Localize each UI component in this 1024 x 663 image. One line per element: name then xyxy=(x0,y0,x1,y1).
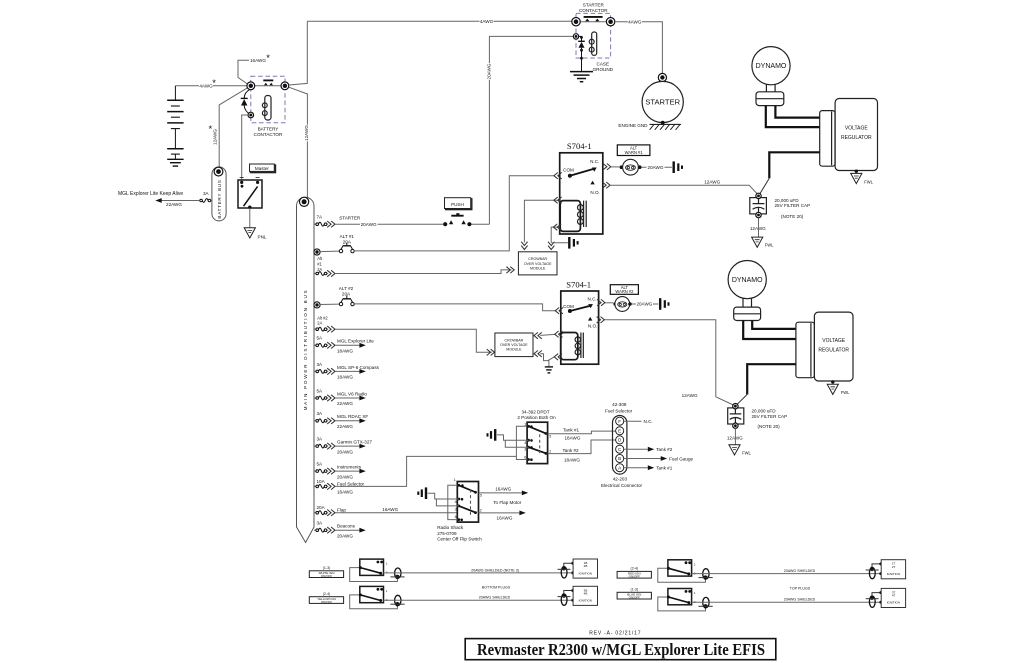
svg-text:PUSH: PUSH xyxy=(451,202,464,207)
battery contactor contact bar xyxy=(263,79,273,81)
dynamo 1 gland xyxy=(756,92,784,106)
DPDT linkage dashed xyxy=(539,434,541,453)
svg-text:2A: 2A xyxy=(317,267,322,272)
relay U2 N.O. contact xyxy=(588,317,592,321)
svg-text:18AWG: 18AWG xyxy=(337,375,353,380)
wire N.C. to lamp xyxy=(611,166,620,168)
push button label box xyxy=(446,199,472,210)
svg-text:Center Off Flip Switch: Center Off Flip Switch xyxy=(437,537,482,542)
svg-text:4: 4 xyxy=(455,500,457,504)
svg-text:BATTERY BUS: BATTERY BUS xyxy=(217,179,222,218)
svg-text:E: E xyxy=(618,429,621,434)
flap switch box xyxy=(457,482,478,523)
svg-text:3A: 3A xyxy=(317,362,324,367)
flap bracket pins 1-6 xyxy=(448,485,459,519)
svg-text:20AWG: 20AWG xyxy=(648,165,664,170)
svg-text:Flap: Flap xyxy=(337,507,346,512)
relay U1 N.O. contact xyxy=(590,181,594,185)
wire N.C. to lamp 2 xyxy=(605,302,613,304)
voltage regulator 2 ground xyxy=(831,380,834,383)
svg-text:34-392 DPDT: 34-392 DPDT xyxy=(521,410,549,415)
voltage regulator 2 connector xyxy=(796,322,815,378)
svg-text:5A: 5A xyxy=(317,388,324,393)
svg-text:F: F xyxy=(618,419,621,424)
svg-text:(1-3): (1-3) xyxy=(631,588,639,592)
svg-text:ON/OFF: ON/OFF xyxy=(321,600,332,604)
svg-text:20AWG: 20AWG xyxy=(337,449,353,454)
svg-text:ON/OFF: ON/OFF xyxy=(321,574,332,578)
svg-text:STARTER: STARTER xyxy=(339,215,361,220)
svg-text:18AWG: 18AWG xyxy=(337,349,353,354)
svg-text:N.C.: N.C. xyxy=(590,159,599,164)
svg-text:20AWG: 20AWG xyxy=(337,533,353,538)
dynamo 2 xyxy=(728,261,766,299)
cable shield oval right xyxy=(869,596,875,607)
dynamo 2 gland xyxy=(734,307,761,320)
svg-text:6: 6 xyxy=(524,455,526,459)
svg-text:N.C.: N.C. xyxy=(644,419,653,424)
svg-text:DYNAMO: DYNAMO xyxy=(732,277,763,284)
relay U1 blade xyxy=(570,169,594,176)
ignition switch xyxy=(360,586,384,602)
svg-text:ON/OFF: ON/OFF xyxy=(629,596,640,600)
voltage regulator 2 xyxy=(814,312,853,381)
starter contactor coil xyxy=(589,39,594,44)
crowbar over voltage module 1 xyxy=(518,252,557,275)
ALT WARN 1 label box xyxy=(617,145,650,156)
wire 16AWG stub to battery contactor xyxy=(238,60,249,84)
svg-text:3A: 3A xyxy=(317,411,324,416)
svg-text:16AWG: 16AWG xyxy=(497,515,513,520)
battery xyxy=(174,86,176,101)
ALT WARN 2 label box xyxy=(610,285,638,295)
svg-text:16AWG: 16AWG xyxy=(495,486,511,491)
svg-text:(2-4): (2-4) xyxy=(323,592,331,596)
svg-text:2: 2 xyxy=(480,508,482,512)
wire 20AWG shielded bottom 1 xyxy=(384,572,573,574)
svg-text:12AWG: 12AWG xyxy=(704,180,720,185)
svg-text:22AWG: 22AWG xyxy=(337,401,353,406)
svg-text:Garmin GTX-327: Garmin GTX-327 xyxy=(337,440,372,445)
svg-text:20AWG SHIELDED (NOTE 3): 20AWG SHIELDED (NOTE 3) xyxy=(471,568,519,572)
DPDT pin dots xyxy=(527,425,530,428)
relay U2 coil bottom wire to crowbar 2 and ground xyxy=(540,354,554,361)
battery bus xyxy=(212,167,226,221)
wire flap output 1 xyxy=(479,492,522,494)
wire 2A fuse to crowbar module 2 xyxy=(335,329,492,352)
ground earth relay2 coil xyxy=(545,366,553,368)
svg-text:2 Position Both On: 2 Position Both On xyxy=(517,415,556,420)
svg-text:TOP PLUGS: TOP PLUGS xyxy=(790,586,811,590)
svg-text:MGL RDAC XF: MGL RDAC XF xyxy=(337,414,368,419)
svg-text:MGL Explorer Lite Keep Alive: MGL Explorer Lite Keep Alive xyxy=(118,191,183,197)
svg-text:(2-4): (2-4) xyxy=(631,567,639,571)
svg-text:IGNITION: IGNITION xyxy=(579,571,592,575)
ignition module box xyxy=(573,559,597,578)
starter contactor contact bar xyxy=(584,16,603,18)
wire 20AWG shielded top 1 xyxy=(692,573,881,575)
svg-text:2A: 2A xyxy=(317,321,322,326)
battery contactor diode xyxy=(244,89,250,98)
voltage regulator 1 ground xyxy=(855,170,858,173)
svg-text:Master: Master xyxy=(255,166,270,171)
master switch xyxy=(238,180,262,208)
svg-text:*: * xyxy=(266,53,270,64)
wire pin F N.C. xyxy=(624,420,642,422)
starter contactor terminal right xyxy=(606,18,614,26)
svg-text:IGNITION: IGNITION xyxy=(887,572,900,576)
svg-text:20A: 20A xyxy=(317,505,326,510)
wire starter row xyxy=(335,223,443,225)
dynamo 1 wires to regulator xyxy=(766,106,820,128)
wire tank2 DPDT to connector D xyxy=(548,440,616,454)
main bus top terminal xyxy=(300,197,309,206)
wire 12AWG battery bus to contactor xyxy=(219,88,247,168)
cable shield oval right xyxy=(869,568,875,579)
svg-text:2B: 2B xyxy=(584,564,588,568)
dynamo 2 wires to regulator xyxy=(743,321,796,340)
ignition module box xyxy=(573,586,597,605)
cable shield oval right xyxy=(561,567,567,578)
voltage regulator 2 output wire xyxy=(747,364,796,394)
svg-text:MODULE: MODULE xyxy=(530,266,546,270)
svg-text:Tank #1: Tank #1 xyxy=(656,466,673,471)
wire 4AWG from contactor to starter motor xyxy=(615,22,662,74)
ground chassis relay2 lamp xyxy=(659,298,661,310)
wire keep alive xyxy=(162,200,200,202)
flap blades xyxy=(459,485,476,492)
svg-text:18AWG: 18AWG xyxy=(565,436,581,441)
svg-text:4T: 4T xyxy=(892,594,896,598)
DPDT blades xyxy=(529,426,546,433)
svg-text:N.C.: N.C. xyxy=(588,297,597,302)
svg-text:CROWBAR: CROWBAR xyxy=(528,257,547,261)
wire coil to chassis ground xyxy=(551,242,568,244)
svg-text:3: 3 xyxy=(455,507,457,511)
DPDT switch box xyxy=(527,422,548,463)
battery contactor lower terminal xyxy=(248,112,254,118)
svg-text:20AWG SHIELDED: 20AWG SHIELDED xyxy=(479,596,511,600)
svg-text:MAIN POWER DISTRIBUTION BUS: MAIN POWER DISTRIBUTION BUS xyxy=(303,289,308,411)
svg-text:18AWG: 18AWG xyxy=(564,457,580,462)
wire between starter contactor terminals xyxy=(580,21,606,23)
ground PNL xyxy=(244,228,255,238)
push button contacts xyxy=(451,215,463,217)
svg-text:STARTER: STARTER xyxy=(645,98,680,107)
svg-text:1: 1 xyxy=(524,422,526,426)
svg-text:MGL Explorer Lite: MGL Explorer Lite xyxy=(337,339,374,344)
ground chassis DPDT xyxy=(494,429,496,441)
svg-text:3: 3 xyxy=(524,447,526,451)
svg-text:20AWG: 20AWG xyxy=(361,222,377,227)
svg-text:5A: 5A xyxy=(317,462,324,467)
svg-text:2T: 2T xyxy=(892,565,896,569)
svg-text:S704-1: S704-1 xyxy=(566,279,591,289)
svg-text:1: 1 xyxy=(454,478,456,482)
svg-text:To Flap Motor: To Flap Motor xyxy=(493,500,522,505)
wire ALT2 breaker to relay2 COM xyxy=(354,304,555,311)
cable shield oval xyxy=(703,569,709,579)
wire contactor coil to master switch xyxy=(242,115,248,180)
svg-text:COM: COM xyxy=(563,304,574,309)
wire 4AWG battery to battery contactor xyxy=(175,85,246,87)
connector pin F xyxy=(616,417,624,425)
svg-text:OVER VOLTAGE: OVER VOLTAGE xyxy=(524,262,552,266)
starter motor terminal xyxy=(658,73,666,81)
wire 20AWG shielded top 2 xyxy=(692,601,881,603)
svg-text:ON/OFF: ON/OFF xyxy=(629,575,640,579)
svg-text:MGL V6 Radio: MGL V6 Radio xyxy=(337,391,367,396)
svg-text:Electrical Connector: Electrical Connector xyxy=(601,483,643,488)
svg-text:CASE: CASE xyxy=(597,62,610,67)
svg-text:4: 4 xyxy=(524,441,526,445)
ignition switch xyxy=(668,560,692,576)
case ground wire xyxy=(581,48,583,72)
svg-text:20AWG: 20AWG xyxy=(487,63,492,79)
wire push button to 20AWG vertical xyxy=(472,223,490,225)
battery ground xyxy=(167,158,183,160)
wire tank1 DPDT to connector E xyxy=(548,431,616,434)
lamp ALT WARN 1 xyxy=(620,165,624,169)
svg-text:PNL: PNL xyxy=(258,235,267,240)
cable shield oval right xyxy=(561,594,567,605)
svg-text:FWL: FWL xyxy=(864,179,873,184)
svg-text:12AWG: 12AWG xyxy=(213,129,218,145)
filter cap 1 xyxy=(750,198,767,214)
cable shield oval xyxy=(395,568,401,578)
cable shield oval xyxy=(703,597,709,607)
svg-text:DYNAMO: DYNAMO xyxy=(756,63,787,70)
svg-text:REGULATOR: REGULATOR xyxy=(818,348,849,354)
svg-text:Radio Shack: Radio Shack xyxy=(437,525,464,530)
wire lamp2 to ground 20AWG xyxy=(632,303,659,305)
svg-text:BATTERY: BATTERY xyxy=(258,126,279,131)
wire 4AWG top from bus corner to starter contactor xyxy=(307,20,572,22)
svg-text:25V FILTER CAP: 25V FILTER CAP xyxy=(775,203,811,208)
svg-text:REV -A- 02/21/17: REV -A- 02/21/17 xyxy=(589,630,641,636)
relay U1 box xyxy=(560,153,603,234)
ignition module box xyxy=(881,588,905,607)
svg-text:B: B xyxy=(618,456,621,461)
lamp ALT WARN 2 xyxy=(613,302,617,306)
svg-text:20AWG: 20AWG xyxy=(337,474,353,479)
svg-text:20AWG: 20AWG xyxy=(636,302,652,307)
svg-text:IGNITION: IGNITION xyxy=(887,601,900,605)
svg-text:WARN #2: WARN #2 xyxy=(615,289,634,294)
svg-text:ALT #1: ALT #1 xyxy=(340,234,355,239)
wire 12AWG contactor to main bus xyxy=(289,21,307,85)
svg-text:REGULATOR: REGULATOR xyxy=(841,135,872,141)
wire 20AWG shielded bottom 2 xyxy=(384,599,573,601)
case ground symbol xyxy=(570,71,593,73)
flap pin dots xyxy=(457,484,460,487)
relay U2 coil top wire to crowbar 2 xyxy=(540,334,555,335)
relay U2 box xyxy=(561,291,599,364)
connector pin D xyxy=(616,436,624,444)
ground chassis flap xyxy=(425,487,427,499)
svg-text:4AWG: 4AWG xyxy=(199,84,213,89)
svg-text:S704-1: S704-1 xyxy=(567,141,592,151)
battery bus top terminal xyxy=(214,167,223,176)
ignition switch xyxy=(360,559,384,575)
svg-text:16AWG: 16AWG xyxy=(337,490,353,495)
svg-text:42-203: 42-203 xyxy=(613,477,628,482)
svg-text:4AWG: 4AWG xyxy=(628,19,642,24)
svg-text:Fuel Selector: Fuel Selector xyxy=(605,408,633,413)
svg-text:Beacons: Beacons xyxy=(337,524,356,529)
svg-text:CROWBAR: CROWBAR xyxy=(505,338,524,342)
ground chassis relay1 coil xyxy=(568,237,570,249)
svg-text:22AWG: 22AWG xyxy=(337,424,353,429)
svg-text:16AWG: 16AWG xyxy=(250,58,266,63)
crowbar over voltage module 2 xyxy=(495,333,533,357)
wire fuel selector feed xyxy=(335,456,516,486)
svg-text:FWL: FWL xyxy=(765,243,774,248)
DPDT bracket pins 1-6 xyxy=(516,426,528,459)
voltage regulator 1 xyxy=(835,99,877,171)
svg-text:25V FILTER CAP: 25V FILTER CAP xyxy=(752,414,788,419)
battery contactor coil xyxy=(262,103,267,108)
filter cap 2 xyxy=(728,408,744,424)
svg-text:FWL: FWL xyxy=(841,390,850,395)
svg-text:CONTACTOR: CONTACTOR xyxy=(254,132,283,137)
connector pin A xyxy=(616,464,624,472)
starter motor xyxy=(642,81,683,122)
svg-text:3A: 3A xyxy=(203,191,210,196)
svg-text:Fuel Gauge: Fuel Gauge xyxy=(669,457,693,462)
svg-text:(NOTE 20): (NOTE 20) xyxy=(758,424,781,429)
svg-text:Fuel Selector: Fuel Selector xyxy=(337,482,365,487)
wire flap feed xyxy=(335,512,457,514)
flap linkage dashed xyxy=(470,490,472,517)
connector pin E xyxy=(616,427,624,435)
svg-text:6: 6 xyxy=(455,515,457,519)
svg-text:5: 5 xyxy=(549,435,551,439)
wire lamp to ground 20AWG xyxy=(642,166,672,168)
connector pin B xyxy=(616,454,624,462)
battery contactor dashed box xyxy=(251,76,285,123)
wire master to PNL ground xyxy=(249,208,251,228)
svg-text:ENGINE GND: ENGINE GND xyxy=(618,123,648,128)
svg-text:VOLTAGE: VOLTAGE xyxy=(822,338,846,344)
svg-text:5: 5 xyxy=(480,494,482,498)
starter contactor diode xyxy=(579,36,582,41)
svg-text:20AWG SHIELDED: 20AWG SHIELDED xyxy=(784,598,816,602)
ignition switch xyxy=(668,589,692,605)
dynamo 1 xyxy=(752,47,790,85)
svg-text:Tank #2: Tank #2 xyxy=(563,448,580,453)
svg-text:BOTTOM PLUGS: BOTTOM PLUGS xyxy=(482,585,511,589)
svg-text:275-0709: 275-0709 xyxy=(437,531,457,536)
wire ALT1 breaker to relay1 COM xyxy=(354,176,554,251)
svg-text:Tank #1: Tank #1 xyxy=(563,428,580,433)
relay U1 coil xyxy=(578,205,584,211)
voltage regulator 1 connector xyxy=(820,111,835,167)
svg-text:(NOTE 20): (NOTE 20) xyxy=(781,214,804,219)
svg-text:N.O.: N.O. xyxy=(590,190,599,195)
wire 12AWG relay2 N.O. to filter cap 2 xyxy=(605,320,735,406)
svg-text:WARN #1: WARN #1 xyxy=(625,150,644,155)
svg-text:N.O.: N.O. xyxy=(588,323,597,328)
master switch label box xyxy=(251,165,276,172)
svg-text:IGNITION: IGNITION xyxy=(579,599,592,603)
svg-text:MODULE: MODULE xyxy=(506,348,522,352)
svg-text:Instruments: Instruments xyxy=(337,465,362,470)
wire pin B fuel gauge xyxy=(624,458,661,460)
svg-text:GROUND: GROUND xyxy=(593,67,614,72)
wire pin A tank1 xyxy=(624,467,648,469)
svg-text:Tank #2: Tank #2 xyxy=(656,447,673,452)
wire between battery contactor terminals xyxy=(255,85,282,87)
svg-text:(1-3): (1-3) xyxy=(323,566,331,570)
svg-text:Revmaster R2300 w/MGL Explorer: Revmaster R2300 w/MGL Explorer Lite EFIS xyxy=(477,640,765,659)
svg-text:ALT #2: ALT #2 xyxy=(339,286,354,291)
svg-text:4AWG: 4AWG xyxy=(480,19,494,24)
wire 2A fuse to crowbar module 1 xyxy=(335,270,512,274)
svg-text:*: * xyxy=(208,124,212,135)
svg-text:#1: #1 xyxy=(317,262,322,267)
relay U2 coil xyxy=(575,337,580,342)
svg-text:2: 2 xyxy=(549,449,551,453)
svg-text:7A: 7A xyxy=(317,214,324,219)
title box xyxy=(465,639,776,660)
svg-text:FWL: FWL xyxy=(742,450,751,455)
relay U1 coil top terminal wire to crowbar xyxy=(524,200,559,242)
voltage regulator 1 output wire xyxy=(769,152,819,178)
svg-text:42-308: 42-308 xyxy=(612,402,627,407)
svg-text:CONTACTOR: CONTACTOR xyxy=(579,8,608,13)
svg-text:10A: 10A xyxy=(317,479,326,484)
wire flap output 2 xyxy=(479,512,520,514)
svg-text:*: * xyxy=(212,78,216,89)
relay U1 coil bottom terminal wire xyxy=(551,227,560,242)
svg-text:3A: 3A xyxy=(317,521,324,526)
ground chassis relay1 lamp xyxy=(673,161,675,173)
svg-text:OVER VOLTAGE: OVER VOLTAGE xyxy=(500,343,528,347)
relay U2 blade xyxy=(570,306,591,311)
svg-text:20,000 uFD: 20,000 uFD xyxy=(775,198,800,203)
svg-text:5A: 5A xyxy=(317,336,324,341)
connector pin C xyxy=(616,445,624,453)
wire 20AWG vertical from starter contactor coil to push button xyxy=(489,36,573,224)
svg-text:4B: 4B xyxy=(584,592,588,596)
starter contactor coil terminal xyxy=(573,34,578,39)
battery contactor terminal right xyxy=(281,82,289,90)
wire pin C tank2 xyxy=(624,448,648,450)
svg-text:VOLTAGE: VOLTAGE xyxy=(845,126,869,132)
main power distribution bus xyxy=(297,197,315,542)
svg-text:12AWG: 12AWG xyxy=(682,393,698,398)
wire 12AWG relay1 N.O. to filter cap 1 xyxy=(610,185,757,194)
starter contactor dashed box xyxy=(576,13,611,58)
cable shield oval xyxy=(395,595,401,605)
ignition module box xyxy=(881,560,905,579)
svg-text:12AWG: 12AWG xyxy=(304,125,309,141)
svg-text:20,000 uFD: 20,000 uFD xyxy=(752,409,777,414)
svg-text:20AWG SHIELDED: 20AWG SHIELDED xyxy=(784,569,816,573)
battery contactor terminal left xyxy=(247,82,255,90)
engine ground xyxy=(661,121,665,125)
fuse 3A keep-alive xyxy=(211,200,212,202)
svg-text:COM: COM xyxy=(563,167,574,172)
svg-text:STARTER: STARTER xyxy=(583,3,605,8)
svg-text:3A: 3A xyxy=(317,437,324,442)
wire DPDT ground to pins 4 and 3 xyxy=(497,435,529,440)
svg-text:16AWG: 16AWG xyxy=(382,507,398,512)
wire flap ground to pins 4 and 3 xyxy=(428,493,459,499)
svg-text:MGL SP-6 Compass: MGL SP-6 Compass xyxy=(337,365,380,370)
svg-text:22AWG: 22AWG xyxy=(166,202,182,207)
